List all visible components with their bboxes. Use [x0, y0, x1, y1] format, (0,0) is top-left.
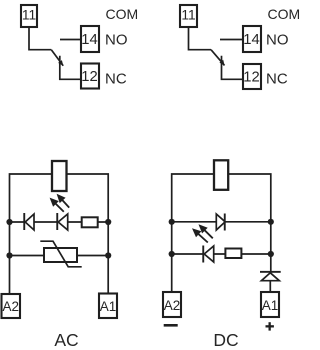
label COM (left): [106, 6, 139, 22]
junction dot (AC left, varistor row): [6, 252, 12, 258]
terminal 11 (right): [180, 5, 197, 27]
wire: DC LED row: [172, 253, 271, 255]
svg-text:12: 12: [243, 70, 259, 86]
wire: right NO stub to terminal 14: [220, 39, 243, 41]
terminal 14 (right): [243, 26, 261, 52]
svg-text:COM: COM: [106, 6, 139, 22]
wire: left NC branch to terminal 12: [60, 56, 81, 80]
diode D3 (DC top row, cathode right): [216, 214, 225, 231]
label NC (left): [105, 71, 127, 88]
svg-text:AC: AC: [54, 330, 78, 350]
resistor R1 (AC): [82, 217, 98, 227]
switch blade (movable contact, right diagram): [211, 50, 225, 66]
varistor RV1 (AC): [40, 241, 81, 267]
svg-text:NO: NO: [105, 31, 128, 48]
terminal 12 (left): [81, 64, 99, 89]
terminal A1 (AC): [99, 294, 117, 319]
svg-text:NO: NO: [266, 31, 289, 48]
resistor R2 (DC): [225, 249, 241, 259]
switch blade (movable contact, left diagram): [51, 50, 63, 66]
DC circuit frame wires (top bus and side rails): [172, 174, 271, 292]
svg-text:14: 14: [243, 32, 259, 48]
LED emission arrows (DC): [192, 224, 213, 242]
relay coil (DC): [214, 160, 228, 190]
wire: left NO stub to terminal 14: [60, 39, 81, 41]
svg-text:A2: A2: [2, 299, 19, 314]
wire: left contact pole from terminal 11: [29, 27, 51, 50]
svg-text:A1: A1: [100, 299, 117, 314]
minus polarity mark (DC A2): [164, 324, 178, 327]
LED D2 (AC row, cathode left): [56, 213, 67, 230]
wire: AC varistor row: [10, 255, 109, 257]
svg-text:11: 11: [22, 8, 36, 23]
wire: DC diode row: [172, 221, 271, 223]
wire: right NC branch to terminal 12: [222, 56, 244, 80]
terminal A2 (AC): [2, 294, 21, 318]
terminal 12 (right): [243, 64, 261, 89]
junction dot (AC right, indicator row): [105, 219, 111, 225]
wire: AC indicator row: [10, 221, 109, 223]
label NC (right): [266, 71, 288, 88]
label NO (left): [105, 31, 128, 48]
svg-text:12: 12: [81, 69, 97, 85]
wire: right contact pole from terminal 11: [189, 27, 212, 50]
LED D4 (DC bottom row, cathode left): [202, 246, 213, 263]
junction dot (AC right, varistor row): [105, 252, 111, 258]
series diode D5 (DC, cathode up, on A1 rail): [260, 271, 281, 281]
terminal 11 (left): [21, 5, 37, 27]
relay coil (AC): [52, 161, 67, 191]
junction dot (DC right, LED row): [268, 251, 274, 257]
plus polarity mark (DC A1): [266, 322, 274, 330]
svg-text:11: 11: [181, 8, 195, 23]
terminal A2 (DC): [163, 292, 181, 317]
wire: DC A1 lead below series diode: [269, 280, 271, 292]
svg-text:14: 14: [81, 32, 97, 48]
svg-text:A2: A2: [164, 298, 181, 313]
AC circuit frame wires (top bus and side rails): [10, 174, 109, 294]
svg-text:NC: NC: [266, 71, 288, 88]
label AC: [54, 330, 78, 350]
diode D1 (AC row, cathode left): [23, 213, 34, 230]
svg-text:NC: NC: [105, 71, 127, 88]
svg-text:COM: COM: [268, 6, 301, 22]
svg-text:DC: DC: [213, 330, 238, 350]
junction dot (DC left, LED row): [169, 251, 175, 257]
terminal 14 (left): [81, 26, 99, 52]
junction dot (AC left, indicator row): [6, 219, 12, 225]
terminal A1 (DC): [261, 292, 279, 317]
label COM (right): [268, 6, 301, 22]
junction dot (DC left, diode row): [169, 219, 175, 225]
label DC: [213, 330, 238, 350]
LED emission arrows (AC): [50, 194, 70, 212]
junction dot (DC right, diode row): [268, 219, 274, 225]
label NO (right): [266, 31, 289, 48]
svg-text:A1: A1: [262, 298, 279, 313]
